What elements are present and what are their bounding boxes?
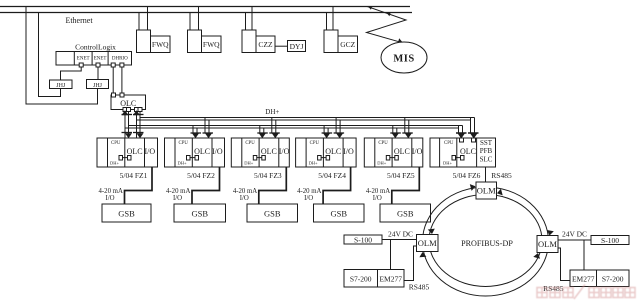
wire rack to GSB 3 (4-20mA) bbox=[259, 167, 287, 204]
arrow down into rack bbox=[192, 133, 199, 138]
GSB box 1 bbox=[102, 204, 151, 222]
wire drop left bbox=[326, 13, 328, 31]
svg-text:5/04 FZ2: 5/04 FZ2 bbox=[187, 171, 215, 180]
rack top port bbox=[472, 138, 476, 142]
wire rack to GSB 2 (4-20mA) bbox=[192, 167, 220, 204]
svg-text:I/O: I/O bbox=[343, 147, 354, 156]
arrow down into rack bbox=[272, 133, 279, 138]
DH+ tap rack 5/04 FZ2 bbox=[192, 126, 194, 134]
OLC bottom port bbox=[138, 108, 142, 112]
box S7-200 left bbox=[344, 270, 378, 288]
svg-text:5/04 FZ5: 5/04 FZ5 bbox=[387, 171, 415, 180]
PROFIBUS ring inner bbox=[429, 195, 542, 287]
arrow down into rack bbox=[259, 133, 266, 138]
svg-text:GCZ: GCZ bbox=[340, 40, 355, 49]
wire drop right bbox=[198, 7, 200, 31]
ControlLogix chassis bbox=[56, 52, 132, 66]
svg-text:RS485: RS485 bbox=[409, 282, 430, 291]
svg-text:DH+: DH+ bbox=[244, 161, 253, 166]
wire rack to GSB 4 (4-20mA) bbox=[323, 167, 351, 204]
wire drop left bbox=[138, 13, 140, 31]
wire down to EM277 left bbox=[390, 240, 392, 270]
svg-text:CPU: CPU bbox=[444, 141, 454, 146]
svg-text:OLC: OLC bbox=[120, 99, 136, 108]
ring arrow into OLM left bottom bbox=[419, 252, 426, 257]
Ethernet bus line 1 bbox=[0, 6, 410, 8]
svg-text:5/04 FZ6: 5/04 FZ6 bbox=[453, 171, 481, 180]
svg-text:OLC: OLC bbox=[325, 147, 341, 156]
svg-text:CPU: CPU bbox=[111, 141, 121, 146]
wire rack to GSB 1 (4-20mA) bbox=[125, 167, 153, 204]
svg-text:I/O: I/O bbox=[144, 147, 155, 156]
wire OLC drop bbox=[139, 112, 141, 139]
slot divider bbox=[456, 138, 458, 167]
OLC top port A bbox=[112, 93, 116, 97]
svg-text:DHRIO: DHRIO bbox=[112, 56, 128, 61]
svg-text:OLM: OLM bbox=[418, 238, 437, 248]
OLM box right bbox=[537, 236, 558, 253]
slot divider bbox=[391, 138, 393, 167]
DH+ tap rack 5/04 FZ6 bbox=[458, 126, 460, 134]
rack chassis 5/04 FZ3 bbox=[231, 138, 289, 167]
svg-text:24V DC: 24V DC bbox=[562, 230, 587, 239]
svg-text:OLC: OLC bbox=[261, 147, 277, 156]
svg-text:SLC: SLC bbox=[480, 156, 493, 164]
svg-text:GSB: GSB bbox=[397, 209, 414, 219]
tap bar bbox=[390, 132, 401, 134]
rack top port bbox=[194, 138, 198, 142]
slot divider bbox=[258, 138, 260, 167]
wire OLM right to S-100 (24V DC) bbox=[558, 239, 591, 241]
svg-text:CPU: CPU bbox=[245, 141, 255, 146]
svg-text:ENET: ENET bbox=[77, 56, 90, 61]
rack top port bbox=[325, 138, 329, 142]
svg-text:DH+: DH+ bbox=[443, 161, 452, 166]
printer DYJ bbox=[288, 41, 306, 52]
transceiver JHJ 2 bbox=[87, 80, 109, 89]
DH+ tap rack 5/04 FZ4 bbox=[323, 126, 325, 134]
slot divider bbox=[374, 138, 376, 167]
svg-text:5/04 FZ1: 5/04 FZ1 bbox=[120, 171, 148, 180]
slot divider bbox=[342, 138, 344, 167]
svg-text:OLC: OLC bbox=[194, 147, 210, 156]
svg-text:RS485: RS485 bbox=[491, 171, 512, 180]
svg-text:CPU: CPU bbox=[179, 141, 189, 146]
svg-text:I/O: I/O bbox=[304, 195, 313, 202]
rack chassis 5/04 FZ2 bbox=[165, 138, 225, 167]
GSB box 5 bbox=[380, 204, 431, 222]
slot divider bbox=[174, 138, 176, 167]
svg-text:I/O: I/O bbox=[279, 147, 290, 156]
svg-text:I/O: I/O bbox=[412, 147, 423, 156]
tap bar bbox=[257, 132, 268, 134]
tower GCZ bbox=[324, 30, 338, 53]
tower CZZ bbox=[242, 30, 256, 53]
wire rack to GSB 5 (4-20mA) bbox=[392, 167, 420, 204]
rack top port bbox=[260, 138, 264, 142]
ring arrow into OLM right bottom bbox=[533, 253, 540, 259]
svg-text:4-20 mA: 4-20 mA bbox=[99, 188, 123, 195]
svg-text:4-20 mA: 4-20 mA bbox=[233, 188, 257, 195]
svg-text:JHJ: JHJ bbox=[93, 83, 103, 89]
wire drop left bbox=[189, 13, 191, 31]
tap bar bbox=[456, 132, 467, 134]
tower FWQ bbox=[137, 30, 151, 53]
DH+ tap rack 5/04 FZ3 bbox=[259, 126, 261, 134]
svg-text:MIS: MIS bbox=[393, 54, 414, 65]
svg-text:OLC: OLC bbox=[460, 147, 476, 156]
arrow down to rack FZ1 bbox=[125, 133, 132, 138]
svg-text:DH+: DH+ bbox=[309, 161, 318, 166]
ring arrow into OLM top right bbox=[497, 189, 503, 196]
svg-text:S-100: S-100 bbox=[601, 236, 619, 245]
arrow down into rack bbox=[471, 133, 478, 138]
port DHRIO A bbox=[111, 63, 115, 67]
label box FWQ bbox=[151, 36, 171, 53]
GSB box 4 bbox=[314, 204, 365, 222]
svg-text:4-20 mA: 4-20 mA bbox=[166, 188, 190, 195]
OLC top port B bbox=[120, 93, 124, 97]
svg-text:OLC: OLC bbox=[127, 147, 143, 156]
svg-text:S-100: S-100 bbox=[354, 236, 372, 245]
slot divider bbox=[73, 52, 75, 66]
ring arrow into OLM left top bbox=[428, 229, 435, 234]
DH+ port squares on CPU bbox=[318, 156, 322, 161]
slot divider bbox=[305, 138, 307, 167]
label box CZZ bbox=[256, 36, 275, 53]
arrowhead into MIS bbox=[397, 38, 403, 45]
slot divider bbox=[144, 138, 146, 167]
DH+ port squares on CPU bbox=[187, 156, 191, 161]
wire drop right bbox=[147, 7, 149, 31]
PROFIBUS ring outer bbox=[423, 187, 549, 296]
GSB box 3 bbox=[247, 204, 298, 222]
arrow down into rack bbox=[323, 133, 330, 138]
wire DHRIO A to OLC bbox=[112, 67, 114, 93]
slot divider bbox=[107, 52, 109, 66]
box EM277 left bbox=[378, 270, 405, 288]
slot divider bbox=[107, 138, 109, 167]
svg-text:DYJ: DYJ bbox=[290, 42, 304, 51]
svg-text:GSB: GSB bbox=[191, 209, 208, 219]
wire OLM right to EM277 (RS485) bbox=[558, 248, 570, 281]
wire drop left bbox=[245, 13, 247, 31]
slot divider bbox=[476, 138, 478, 167]
rack FZ1 top port bbox=[127, 138, 131, 142]
label box GCZ bbox=[338, 36, 358, 53]
arrow up to OLC bbox=[133, 110, 140, 115]
arrow down into rack bbox=[205, 133, 212, 138]
slot divider bbox=[322, 138, 324, 167]
svg-text:CPU: CPU bbox=[378, 141, 388, 146]
OLM box left bbox=[417, 235, 439, 252]
wire ENET2 to JHJ2 bbox=[97, 67, 99, 80]
rack FZ6 top port bbox=[460, 138, 464, 142]
slot divider bbox=[241, 138, 243, 167]
box EM277 right bbox=[570, 270, 597, 287]
slot divider bbox=[439, 138, 441, 167]
svg-text:CPU: CPU bbox=[310, 141, 320, 146]
svg-text:DH+: DH+ bbox=[265, 108, 279, 116]
box S-100 right bbox=[591, 236, 629, 245]
zigzag link Ethernet to MIS bbox=[367, 7, 407, 43]
port DHRIO B bbox=[120, 63, 124, 67]
slot divider bbox=[124, 138, 126, 167]
port ENET2 bbox=[96, 63, 100, 67]
svg-text:PROFIBUS-DP: PROFIBUS-DP bbox=[461, 239, 513, 248]
DH+ rail end taps rack FZ6 bbox=[458, 128, 460, 133]
DH+ tap rack 5/04 FZ5 bbox=[392, 126, 394, 134]
svg-text:4-20 mA: 4-20 mA bbox=[366, 188, 390, 195]
wire down to EM277 right bbox=[583, 240, 585, 270]
svg-text:5/04 FZ4: 5/04 FZ4 bbox=[318, 171, 346, 180]
wire drop right bbox=[251, 7, 253, 31]
arrow down into rack bbox=[405, 133, 412, 138]
rack top port bbox=[207, 138, 211, 142]
arrow down to rack FZ1 bbox=[137, 133, 144, 138]
wire OLC drop bbox=[136, 112, 138, 139]
DH+ rail 2b bbox=[125, 127, 459, 129]
tap bar bbox=[122, 132, 133, 134]
GSB box 2 bbox=[174, 204, 226, 222]
rack FZ6 top port bbox=[472, 138, 476, 142]
svg-text:SST: SST bbox=[480, 139, 493, 147]
box S7-200 right bbox=[597, 270, 630, 287]
arrowhead into bus junction bbox=[369, 6, 373, 10]
slot divider bbox=[191, 138, 193, 167]
ring arrow into OLM right top bbox=[547, 230, 554, 236]
svg-text:FWQ: FWQ bbox=[203, 40, 220, 49]
svg-text:I/O: I/O bbox=[240, 195, 249, 202]
svg-text:Ethernet: Ethernet bbox=[65, 16, 93, 25]
svg-text:DH+: DH+ bbox=[177, 161, 186, 166]
svg-text:OLC: OLC bbox=[394, 147, 410, 156]
OLC bottom port bbox=[123, 108, 127, 112]
svg-text:I/O: I/O bbox=[373, 195, 382, 202]
arrow down into rack bbox=[392, 133, 399, 138]
watermark bbox=[537, 285, 635, 300]
svg-text:GSB: GSB bbox=[118, 209, 135, 219]
svg-text:FWQ: FWQ bbox=[152, 40, 169, 49]
svg-text:ENET: ENET bbox=[94, 56, 107, 61]
svg-text:JHJ: JHJ bbox=[56, 83, 66, 89]
arrow down into rack bbox=[458, 133, 465, 138]
svg-text:GSB: GSB bbox=[330, 209, 347, 219]
rack top port bbox=[338, 138, 342, 142]
slot divider bbox=[411, 138, 413, 167]
svg-text:24V DC: 24V DC bbox=[388, 229, 413, 238]
ring arrow into OLM top left bbox=[470, 184, 476, 191]
rack chassis 5/04 FZ6 bbox=[430, 138, 496, 167]
svg-text:ControlLogix: ControlLogix bbox=[75, 43, 116, 52]
OLC interface box bbox=[111, 95, 146, 110]
svg-text:5/04 FZ3: 5/04 FZ3 bbox=[254, 171, 282, 180]
arrow down into rack bbox=[336, 133, 343, 138]
wire EM277 to OLM left (RS485) bbox=[404, 246, 417, 281]
tap bar bbox=[191, 132, 202, 134]
wire CZZ to DYJ bbox=[275, 45, 288, 47]
tower FWQ bbox=[188, 30, 202, 53]
OLC bottom port bbox=[135, 108, 139, 112]
wire OLC drop bbox=[128, 112, 130, 139]
svg-text:OLM: OLM bbox=[477, 186, 496, 196]
tap bar bbox=[122, 114, 133, 116]
rack top port bbox=[393, 138, 397, 142]
wire drop x26 from bus line1 bbox=[26, 7, 98, 105]
OLC bottom port bbox=[127, 108, 131, 112]
OLM box top bbox=[476, 182, 497, 199]
rack chassis 5/04 FZ1 bbox=[97, 138, 158, 167]
tap bar bbox=[322, 132, 333, 134]
wire drop x38.5 from bus line2 bbox=[39, 13, 61, 97]
svg-text:OLM: OLM bbox=[538, 239, 557, 249]
wire DHRIO B to OLC bbox=[121, 67, 123, 93]
DH+ port squares on CPU bbox=[253, 156, 256, 161]
box S-100 left bbox=[344, 235, 382, 244]
svg-text:I/O: I/O bbox=[105, 195, 114, 202]
slot divider bbox=[91, 52, 93, 66]
DH+ port squares on CPU bbox=[386, 156, 390, 161]
svg-text:I/O: I/O bbox=[212, 147, 223, 156]
arrow up to OLC bbox=[122, 110, 129, 115]
wire ENET1 to JHJ1 bbox=[61, 67, 82, 80]
slot divider bbox=[278, 138, 280, 167]
transceiver JHJ 1 bbox=[50, 80, 73, 89]
DH+ rail 1a bbox=[140, 117, 475, 119]
rack FZ1 top port bbox=[138, 138, 142, 142]
DH+ rail 1b bbox=[137, 119, 471, 121]
arrow down into rack FZ6 bbox=[458, 133, 465, 138]
port ENET1 bbox=[79, 63, 83, 67]
svg-text:EM277: EM277 bbox=[379, 275, 402, 284]
rack top port bbox=[459, 138, 463, 142]
DH+ rail 2a bbox=[129, 125, 463, 127]
svg-text:I/O: I/O bbox=[173, 195, 182, 202]
slot divider bbox=[211, 138, 213, 167]
svg-text:PFB: PFB bbox=[480, 147, 493, 155]
svg-text:S7-200: S7-200 bbox=[602, 275, 624, 284]
DH+ port squares on CPU bbox=[119, 156, 123, 161]
svg-text:S7-200: S7-200 bbox=[350, 275, 372, 284]
wire drop right bbox=[332, 7, 334, 31]
wire rack FZ6 to OLM top bbox=[485, 167, 487, 182]
svg-text:DH+: DH+ bbox=[377, 161, 386, 166]
rack top port bbox=[406, 138, 410, 142]
svg-text:4-20 mA: 4-20 mA bbox=[297, 188, 321, 195]
DH+ port squares on CPU bbox=[452, 156, 456, 161]
rack chassis 5/04 FZ4 bbox=[296, 138, 357, 167]
MIS ellipse bbox=[381, 42, 427, 73]
wire OLC drop bbox=[124, 112, 126, 139]
svg-text:GSB: GSB bbox=[264, 209, 281, 219]
svg-text:DH+: DH+ bbox=[110, 161, 119, 166]
rack top port bbox=[273, 138, 277, 142]
label box FWQ bbox=[202, 36, 222, 53]
rack chassis 5/04 FZ5 bbox=[364, 138, 423, 167]
arrow down into rack FZ6 bbox=[470, 133, 477, 138]
arrowhead at bus line2 crossing bbox=[387, 13, 391, 17]
Ethernet bus line 2 bbox=[0, 12, 412, 14]
tap bar bbox=[456, 132, 467, 134]
svg-text:CZZ: CZZ bbox=[258, 40, 273, 49]
wire S-100 to OLM left (24V DC) bbox=[382, 239, 417, 241]
svg-text:EM277: EM277 bbox=[572, 275, 595, 284]
